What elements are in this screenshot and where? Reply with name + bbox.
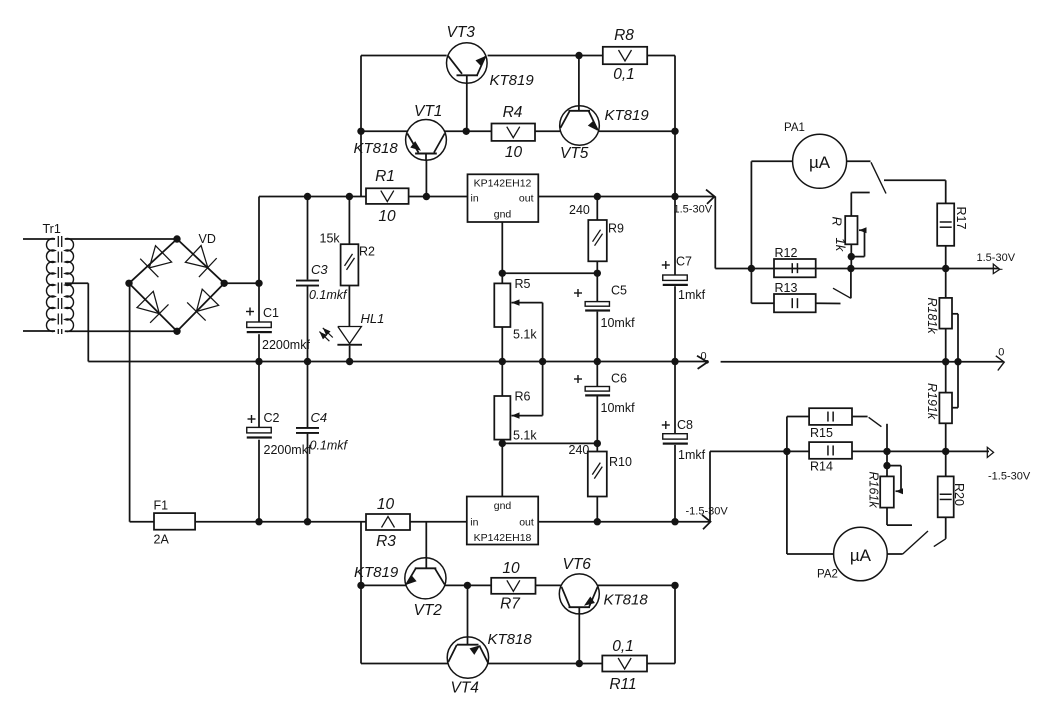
resistor R13 — [774, 281, 816, 312]
wire left vertical R3 rail to VT4 rail — [360, 522, 362, 664]
LED HL1 — [319, 311, 384, 362]
svg-text:10: 10 — [377, 496, 395, 513]
resistor R3 — [366, 496, 410, 550]
node VT1 emitter rail left junction — [357, 128, 364, 135]
node HL1 on 0 rail — [346, 358, 353, 365]
node R1k bottom on metering rail — [847, 265, 854, 272]
wire R3 to regulator U2 in — [410, 521, 467, 523]
resistor R15 — [809, 408, 852, 440]
wire 0 rail — [88, 361, 707, 363]
svg-text:R1: R1 — [375, 168, 395, 185]
wire VT2 collector to R7 — [445, 584, 492, 586]
svg-text:R191k: R191k — [925, 383, 939, 420]
wire VT4 emitter to R11 and VT6 base — [488, 663, 603, 665]
resistor R11 — [602, 638, 647, 693]
node tap riser on 0 rail — [954, 358, 961, 365]
svg-text:out: out — [519, 517, 534, 529]
node C4 column on fuse rail — [304, 518, 311, 525]
svg-text:5.1k: 5.1k — [513, 429, 537, 443]
wire top rail left segment — [361, 55, 447, 57]
svg-text:10: 10 — [502, 560, 520, 577]
node R2 top junction — [346, 193, 353, 200]
wire C1 column vertical — [258, 197, 260, 362]
capacitor C2 2200mkf — [247, 411, 312, 457]
wire R6 top to 0 rail — [501, 362, 503, 397]
wire R8 right to corner and down to VT5 collector rail — [647, 56, 675, 132]
node right vertical at VT5 rail — [671, 128, 678, 135]
node C3 top junction — [304, 193, 311, 200]
wire R15 branch — [787, 417, 809, 452]
svg-text:R13: R13 — [775, 281, 798, 295]
wire riser from +out arrow down to metering rail — [715, 197, 774, 269]
node R9 bottom junction — [594, 270, 601, 277]
svg-text:0,1: 0,1 — [612, 638, 634, 655]
svg-text:1mkf: 1mkf — [678, 288, 706, 302]
svg-text:0: 0 — [998, 347, 1004, 359]
svg-text:KT818: KT818 — [604, 592, 649, 609]
wire C4 column vertical — [307, 362, 309, 522]
svg-text:R2: R2 — [359, 245, 375, 259]
wire +V metering rail — [774, 268, 999, 270]
wire -V metering rail — [852, 450, 989, 452]
resistor R14 — [809, 442, 852, 473]
svg-text:KT818: KT818 — [488, 631, 533, 648]
svg-text:R5: R5 — [515, 277, 531, 291]
capacitor C7 1mkf — [662, 197, 706, 362]
output arrow -1.5-30V left — [686, 506, 729, 530]
diode bridge VD — [129, 232, 224, 331]
svg-text:2200mkf: 2200mkf — [262, 338, 310, 352]
svg-text:R6: R6 — [515, 390, 531, 404]
wire bridge plus output to C1 column — [224, 282, 259, 284]
node bridge top — [173, 235, 180, 242]
wire C3 column vertical — [307, 197, 309, 362]
node C7 column junction on out rail — [671, 193, 678, 200]
node R10 bottom junction — [594, 518, 601, 525]
resistor R20 — [938, 451, 966, 517]
node R10 top junction — [594, 440, 601, 447]
capacitor C3 0.1mkf — [296, 262, 348, 302]
svg-text:Tr1: Tr1 — [43, 222, 61, 236]
svg-text:KP142EH18: KP142EH18 — [474, 532, 532, 544]
svg-text:1.5-30V: 1.5-30V — [977, 252, 1016, 264]
wire R15 switch contact to rail — [886, 424, 888, 452]
node R5 top junction — [499, 270, 506, 277]
svg-text:C5: C5 — [611, 284, 627, 298]
node bridge bottom — [173, 328, 180, 335]
svg-text:HL1: HL1 — [361, 311, 385, 326]
wire R13 branch down — [751, 269, 774, 304]
svg-text:C7: C7 — [676, 255, 692, 269]
transistor VT1 — [354, 103, 447, 197]
wire secondary top lead to bridge — [65, 238, 177, 240]
wire R7 to VT6 — [536, 584, 562, 586]
wire secondary center tap to 0 rail — [65, 283, 89, 361]
svg-text:C3: C3 — [311, 262, 328, 277]
node R181k bottom on 0 rail — [942, 358, 949, 365]
switch SA1 blade at PA1 — [871, 162, 886, 193]
node R161k wiper junction — [883, 462, 890, 469]
wire PA2 right lead — [887, 553, 903, 555]
node R17 bottom on metering rail — [942, 265, 949, 272]
svg-text:R14: R14 — [810, 460, 833, 474]
node R14 left junction — [783, 448, 790, 455]
wire VT1 collector to VT3 base to R4 — [445, 130, 492, 132]
svg-text:C4: C4 — [311, 410, 328, 425]
wire VT6 emitter to right vertical — [598, 584, 676, 586]
svg-text:KP142EH12: KP142EH12 — [474, 178, 532, 190]
svg-text:VT6: VT6 — [563, 556, 592, 573]
svg-text:KT819: KT819 — [605, 107, 650, 124]
wire secondary bottom lead to bridge — [65, 330, 177, 332]
output arrow +1.5-30V left — [674, 190, 715, 216]
wire R13 right lead — [816, 302, 841, 304]
node C8 column junction on U2 out rail — [671, 518, 678, 525]
switch SA2 blade at R15 — [869, 417, 882, 426]
svg-text:gnd: gnd — [494, 500, 512, 512]
svg-text:R9: R9 — [608, 222, 624, 236]
svg-text:1mkf: 1mkf — [678, 448, 706, 462]
resistor R7 — [491, 560, 535, 613]
svg-text:PA1: PA1 — [784, 122, 805, 134]
wire regulator out rail — [538, 196, 714, 198]
wire gnd lead of U2 — [501, 443, 503, 496]
svg-text:R161k: R161k — [867, 472, 881, 509]
svg-text:10mkf: 10mkf — [601, 316, 636, 330]
svg-text:C8: C8 — [677, 418, 693, 432]
node C1 column on 0 rail — [255, 358, 262, 365]
capacitor C6 10mkf — [574, 362, 635, 444]
svg-text:µA: µA — [809, 153, 831, 172]
switch SA2 blade at PA2 — [903, 531, 928, 554]
potentiometer R5 5.1k — [494, 277, 542, 342]
svg-text:C1: C1 — [263, 306, 279, 320]
wire PA1 right lead — [847, 160, 871, 162]
potentiometer R161k — [867, 451, 913, 525]
svg-text:5.1k: 5.1k — [513, 328, 537, 342]
svg-text:1k: 1k — [833, 238, 848, 253]
wire fuse rail F1 to R3 — [195, 521, 366, 523]
wire C2 column vertical — [258, 362, 260, 522]
node C1 column at bridge output — [255, 280, 262, 287]
wire top rail VT3-to-R8 segment — [488, 55, 603, 57]
wire R1 to regulator in — [409, 196, 468, 198]
svg-text:R181k: R181k — [925, 298, 939, 335]
wire raw+ rail from C1 column to R1 — [259, 196, 366, 198]
wire R6 bottom rail to R10 top — [502, 440, 597, 444]
node VT1 base junction on R1 rail — [423, 193, 430, 200]
svg-text:R4: R4 — [503, 104, 523, 121]
output arrow 0 right — [996, 347, 1005, 371]
svg-text:-1.5-30V: -1.5-30V — [686, 506, 729, 518]
output arrow -1.5-30V right — [987, 447, 1031, 482]
svg-text:R8: R8 — [614, 27, 634, 44]
wire R20 bottom switch contact — [934, 517, 946, 546]
svg-text:R3: R3 — [376, 533, 396, 550]
voltage regulator U1 KP142EH12 — [468, 174, 539, 222]
node PA1 left lead junction — [748, 265, 755, 272]
resistor R8 — [603, 27, 647, 83]
node R5 column on 0 rail — [499, 358, 506, 365]
wire gnd lead of U1 down to R5 — [501, 222, 503, 283]
transistor VT2 — [354, 522, 446, 619]
wire PA1 left lead down to metering rail — [751, 161, 792, 268]
resistor R1 — [366, 168, 409, 225]
node R1k wiper junction — [848, 253, 855, 260]
svg-text:R15: R15 — [810, 426, 833, 440]
svg-text:240: 240 — [569, 203, 590, 217]
transistor VT3 — [447, 24, 535, 131]
svg-text:R11: R11 — [609, 676, 636, 693]
svg-text:KT819: KT819 — [354, 564, 399, 581]
fuse F1 2A — [154, 499, 196, 547]
potentiometer R191k — [925, 362, 958, 452]
wire wiper riser R5-R6 — [542, 303, 544, 416]
svg-text:VT4: VT4 — [451, 680, 480, 697]
node VT4 base junction — [464, 582, 471, 589]
svg-text:10mkf: 10mkf — [601, 401, 636, 415]
node VT6 base junction on R11 rail — [576, 660, 583, 667]
svg-text:gnd: gnd — [494, 209, 512, 221]
potentiometer R 1k — [830, 193, 870, 269]
node right vertical at VT6 rail — [671, 582, 678, 589]
svg-text:R: R — [830, 217, 845, 226]
svg-text:µA: µA — [850, 546, 872, 565]
node C7 column on 0 rail — [671, 358, 678, 365]
wire right vertical down to R11 — [647, 585, 675, 663]
potentiometer R6 5.1k — [494, 390, 542, 443]
potentiometer R181k — [925, 269, 958, 408]
svg-text:VT3: VT3 — [447, 24, 476, 41]
svg-text:R20: R20 — [952, 483, 966, 506]
svg-text:VT5: VT5 — [560, 145, 589, 162]
svg-text:VT1: VT1 — [414, 103, 442, 120]
wire R5 top rail to R9 bottom — [502, 272, 597, 274]
wire switch contact to R17 top — [884, 180, 946, 203]
node VT2 emitter junction — [357, 582, 364, 589]
svg-text:out: out — [519, 193, 534, 205]
node bridge left — [125, 280, 132, 287]
svg-text:10: 10 — [378, 208, 396, 225]
svg-text:1.5-30V: 1.5-30V — [674, 204, 713, 216]
svg-text:F1: F1 — [154, 499, 169, 513]
node C5 column on 0 rail — [594, 358, 601, 365]
node R15 contact junction — [883, 448, 890, 455]
ammeter PA1 — [784, 122, 847, 188]
wire VT2 emitter rail — [361, 584, 406, 586]
svg-text:0.1mkf: 0.1mkf — [309, 288, 348, 302]
node VT3 base junction — [463, 128, 470, 135]
wire bridge minus down to fuse rail — [130, 283, 154, 521]
svg-text:R7: R7 — [500, 596, 521, 613]
wire right vertical down to out rail — [674, 131, 676, 196]
transistor VT4 — [447, 585, 532, 696]
svg-text:2A: 2A — [154, 533, 170, 547]
transistor VT6 — [559, 556, 648, 664]
node R20 top junction — [942, 448, 949, 455]
wire riser from -out arrow up to metering rail — [710, 451, 809, 521]
node C3 column on 0 rail — [304, 358, 311, 365]
svg-text:0.1mkf: 0.1mkf — [310, 439, 349, 453]
svg-text:2200mkf: 2200mkf — [264, 443, 312, 457]
wire R15 right lead — [852, 416, 868, 418]
node R9 top junction — [594, 193, 601, 200]
svg-text:R10: R10 — [609, 455, 632, 469]
wire VT1 emitter rail — [361, 130, 408, 132]
node C2 column on fuse rail — [255, 518, 262, 525]
wire U2 out rail — [538, 521, 710, 523]
voltage regulator U2 KP142EH18 — [467, 497, 538, 545]
wire PA2 left lead to R14 branch — [787, 451, 834, 554]
svg-text:C6: C6 — [611, 372, 627, 386]
output arrow 1.5-30V right — [977, 252, 1016, 274]
transformer Tr1 — [23, 222, 74, 334]
wire R5 bottom to 0 rail — [501, 327, 503, 362]
svg-text:in: in — [470, 517, 478, 529]
resistor R2 15k — [320, 197, 376, 327]
svg-text:in: in — [471, 193, 479, 205]
wire left vertical from top rail to R1 rail — [360, 56, 362, 197]
svg-text:VT2: VT2 — [414, 602, 443, 619]
switch SA1 blade at R13 — [833, 269, 851, 299]
resistor R17 — [937, 203, 968, 245]
resistor R4 — [492, 104, 536, 161]
capacitor C8 1mkf — [662, 362, 706, 522]
node bridge right — [221, 280, 228, 287]
node wiper riser on 0 rail — [539, 358, 546, 365]
svg-text:PA2: PA2 — [817, 569, 838, 581]
svg-text:KT818: KT818 — [354, 140, 399, 157]
transistor VT5 — [560, 56, 650, 163]
output arrow 0 middle — [697, 351, 709, 369]
wire 0 rail right segment — [721, 361, 1003, 363]
capacitor C1 2200mkf — [246, 306, 310, 352]
ammeter PA2 — [817, 527, 887, 581]
wire VT4 collector rail to left vertical — [361, 663, 448, 665]
svg-text:240: 240 — [569, 443, 590, 457]
svg-text:VD: VD — [199, 232, 216, 246]
svg-text:0,1: 0,1 — [613, 66, 635, 83]
resistor R12 — [774, 246, 816, 277]
svg-text:15k: 15k — [320, 232, 341, 246]
node VT5 base junction on top rail — [575, 52, 582, 59]
node R6 bottom junction — [499, 440, 506, 447]
capacitor C5 10mkf — [574, 273, 635, 361]
wire R17 bottom to metering rail — [945, 246, 947, 269]
svg-text:-1.5-30V: -1.5-30V — [988, 471, 1031, 483]
resistor R10 240 — [569, 443, 632, 522]
svg-text:R12: R12 — [775, 246, 798, 260]
svg-text:0: 0 — [701, 351, 707, 363]
resistor R9 240 — [569, 197, 624, 274]
svg-text:C2: C2 — [264, 411, 280, 425]
wire R4 to VT5 emitter — [535, 130, 560, 132]
svg-text:R17: R17 — [954, 207, 968, 230]
capacitor C4 0.1mkf — [296, 410, 349, 453]
wire VT5 collector to right vertical — [599, 130, 675, 132]
svg-text:10: 10 — [505, 144, 523, 161]
svg-text:KT819: KT819 — [490, 72, 535, 89]
